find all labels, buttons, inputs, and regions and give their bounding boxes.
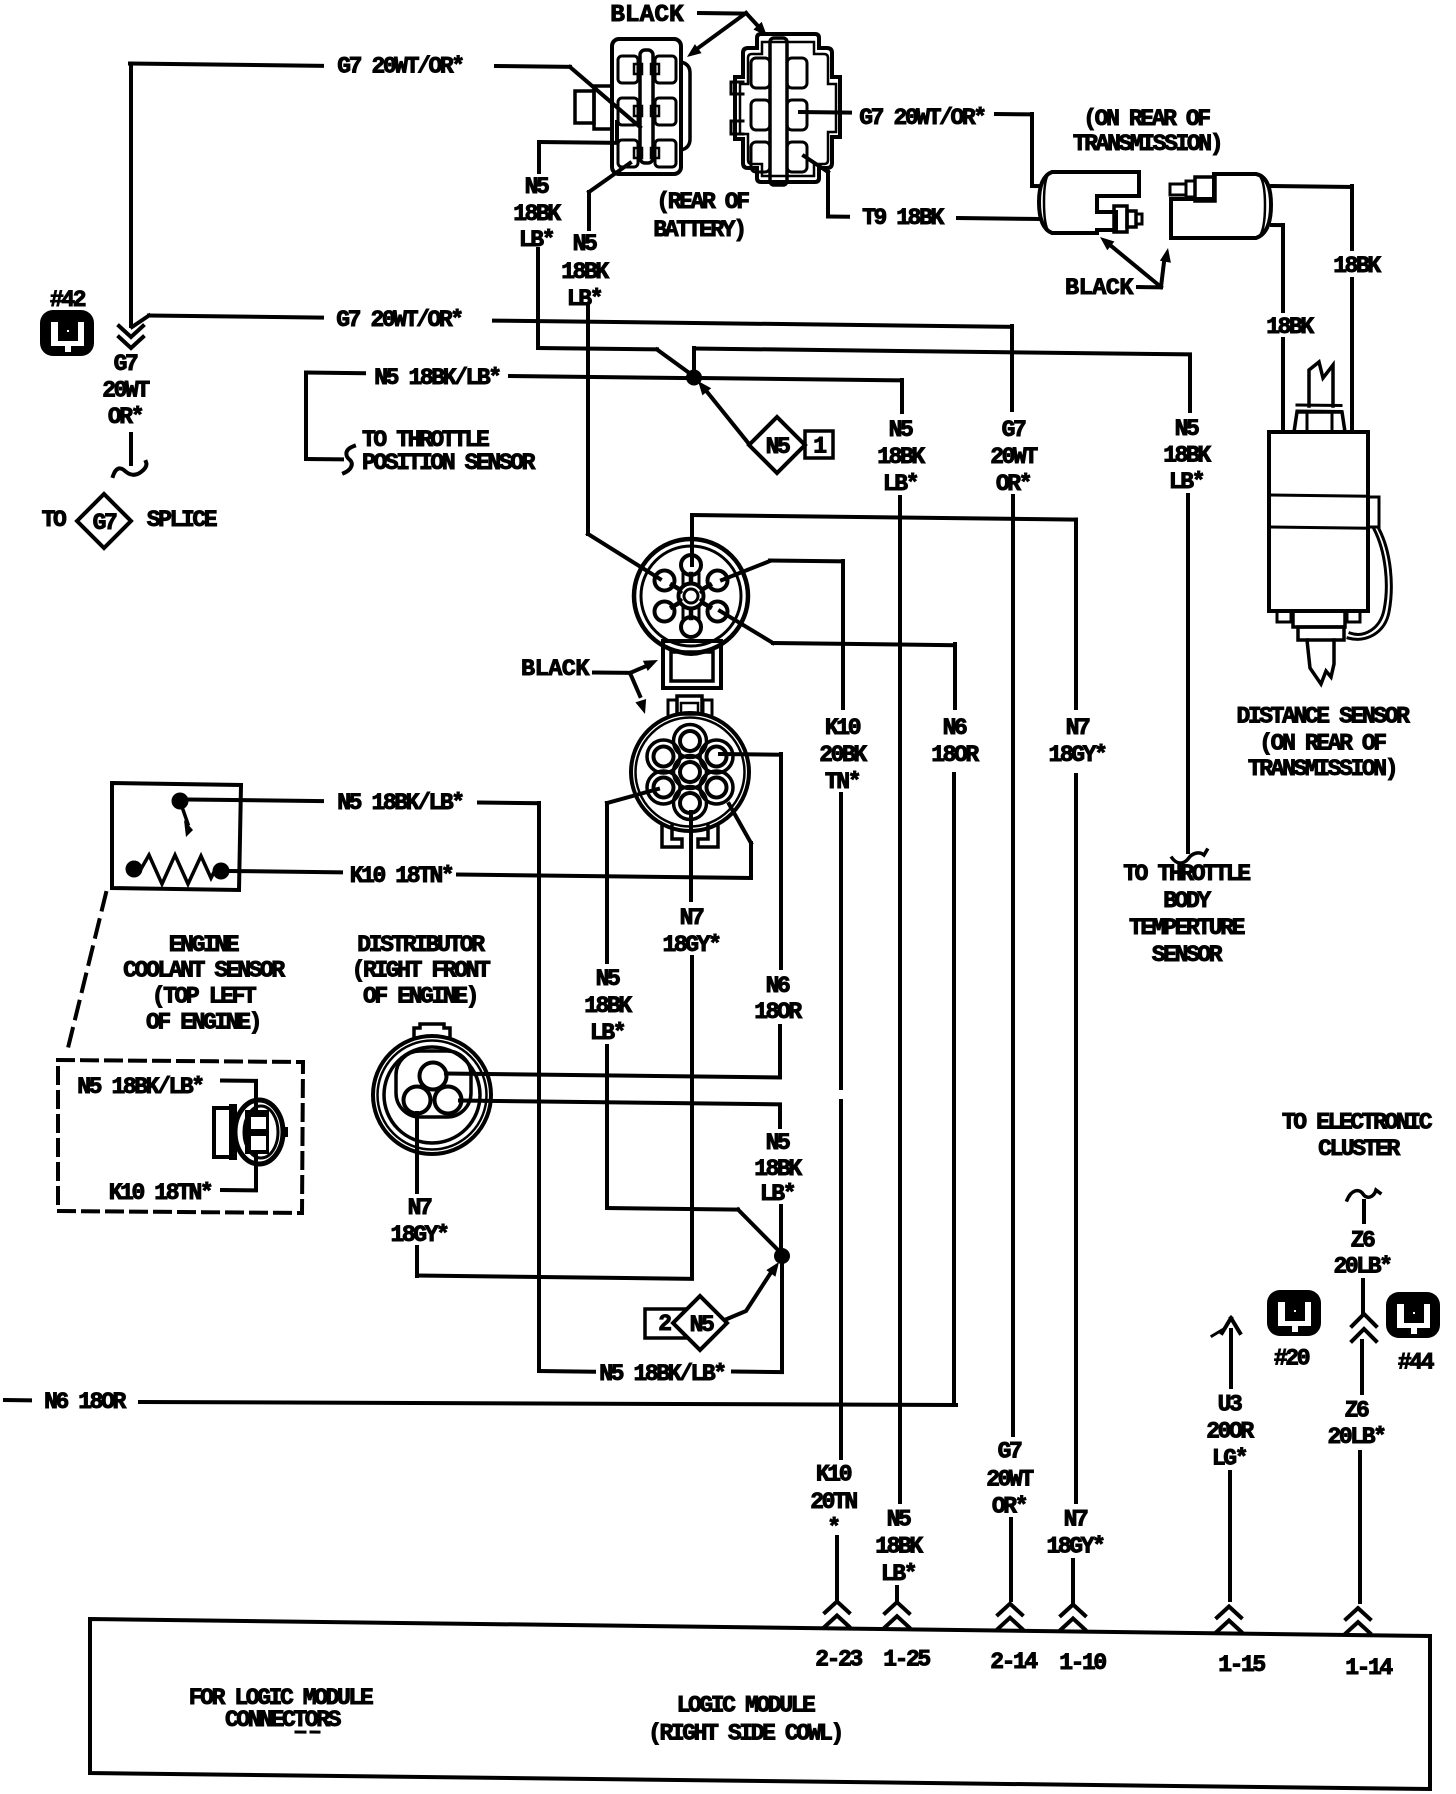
distributor pin right (435, 1087, 462, 1114)
svg-text:(TOP LEFT: (TOP LEFT (152, 984, 257, 1010)
round connector 2 petal (674, 787, 707, 820)
svg-text:(RIGHT SIDE COWL): (RIGHT SIDE COWL) (648, 1721, 842, 1747)
svg-text:OF ENGINE): OF ENGINE) (146, 1010, 260, 1036)
wire T9 diagonal (804, 156, 828, 172)
svg-text:20TN: 20TN (810, 1489, 857, 1515)
junction node 1 (686, 370, 702, 386)
wire N5 to junction 1 (510, 376, 690, 378)
round connector 2 right foot (698, 825, 718, 847)
wire G7 from connector B (800, 110, 850, 115)
connector A right bump (681, 62, 690, 150)
coolant sensor switch needle (182, 807, 188, 824)
wire G7 vertical mid (1011, 496, 1015, 1435)
round connector 1 outer ring (634, 539, 748, 653)
detail sensor nub (282, 1127, 288, 1137)
connector A cavity (655, 56, 676, 83)
wire K10 vertical upper (841, 561, 845, 708)
distance sensor bottom right boss (1347, 611, 1360, 622)
svg-text:18BK: 18BK (877, 444, 925, 470)
wire U3 to module (1228, 1472, 1232, 1600)
svg-text:(RIGHT FRONT: (RIGHT FRONT (352, 958, 491, 984)
splice symbol G7 (77, 494, 131, 548)
wire N5 right long vertical (1186, 495, 1190, 852)
wire N5 bottom row right stub (733, 1370, 782, 1375)
cylinder sensor 1 nipple cap (1127, 211, 1136, 227)
svg-text:N5: N5 (690, 1312, 714, 1338)
svg-text:18GY*: 18GY* (390, 1222, 448, 1248)
svg-text:BODY: BODY (1163, 888, 1211, 914)
wire K10 to module (835, 1537, 839, 1600)
logic module box (90, 1619, 1430, 1789)
wire N6 diagonal from round connector 1 (720, 611, 773, 643)
distance sensor tip (1307, 640, 1334, 684)
wire N5 junction 2 down (780, 1260, 784, 1372)
connector A cavity (655, 98, 676, 125)
arrow to cylinder 2 (1161, 262, 1164, 287)
wire N5 from coolant sensor (188, 800, 322, 802)
wire N7 col x417 lower (415, 1247, 419, 1276)
wire N5 right horizontal (to throttle body) (694, 349, 1190, 355)
coolant sensor resistor terminal right (213, 863, 230, 880)
wire N5 diagonal from round connector 2 pin (607, 789, 658, 803)
round connector 2 petal (647, 740, 680, 773)
brace squiggle (throttle position) (344, 446, 354, 473)
dashed leader to detail box (66, 893, 106, 1056)
svg-text:POSITION SENSOR: POSITION SENSOR (362, 450, 536, 476)
wire G7-2 from chevron (132, 316, 149, 328)
distance sensor torn wire top (1309, 362, 1333, 406)
svg-text:18OR: 18OR (931, 742, 979, 768)
wire G7-2 corner down / G7 long vertical (1010, 326, 1014, 410)
wire bracket vertical (304, 373, 308, 460)
junction node 2 (774, 1248, 790, 1264)
svg-text:1-10: 1-10 (1059, 1650, 1106, 1676)
svg-text:COOLANT SENSOR: COOLANT SENSOR (123, 958, 285, 984)
wire K10 to lower connector (458, 875, 751, 879)
round connector 2 pin (707, 747, 727, 767)
splice arrow to junction 1 (708, 393, 749, 444)
svg-text:N7: N7 (1066, 715, 1090, 741)
wire K10 vertical long 2 (839, 1101, 843, 1458)
connector A cavity (618, 98, 638, 125)
wire N5 col2 lower (586, 306, 590, 534)
svg-text:G7: G7 (998, 1439, 1022, 1465)
arrow to cylinder 1 (1110, 245, 1161, 287)
wire G7-2 horizontal to right (494, 321, 1012, 327)
round connector 1 pin (681, 555, 701, 575)
svg-text:(ON REAR OF: (ON REAR OF (1259, 731, 1386, 757)
svg-text:#42: #42 (50, 287, 86, 313)
distance sensor washer (1297, 404, 1341, 408)
splice symbol N5 2 - box (645, 1309, 688, 1338)
svg-text:BLACK: BLACK (1065, 275, 1134, 302)
wire T9 vertical (826, 172, 830, 216)
svg-text:TRANSMISSION): TRANSMISSION) (1073, 131, 1221, 157)
wire N6 col x780 upper (779, 754, 783, 968)
svg-text:LG*: LG* (1212, 1446, 1247, 1472)
splice symbol N5 1 - box (805, 431, 833, 458)
svg-text:LB*: LB* (883, 471, 918, 497)
round connector 1 spokes (689, 574, 694, 583)
arrow to connector A (694, 13, 746, 51)
wire N5 col x607 upper (605, 803, 609, 962)
module arrow 2-14 (998, 1618, 1022, 1629)
wire N5 col x607 lower (605, 1046, 609, 1208)
wire N7 horizontal to right (692, 515, 1076, 520)
distance sensor band tab (1368, 497, 1379, 527)
coolant sensor resistor zigzag (141, 855, 215, 884)
dashed detail box (58, 1060, 303, 1213)
connector B center bar (770, 38, 787, 185)
svg-text:2-23: 2-23 (815, 1647, 862, 1673)
leader BLACK top (699, 11, 746, 16)
connector B cavity right (787, 100, 807, 130)
wire N5 coolant to corner (479, 801, 539, 806)
wire N6 label dash (5, 1398, 30, 1402)
svg-text:LOGIC MODULE: LOGIC MODULE (677, 1693, 815, 1719)
wire N7 col x692 lower (690, 957, 694, 1278)
wire N5 diagonal into junction 2 (738, 1210, 780, 1253)
wire K10 from resistor (229, 871, 341, 872)
splice symbol N5 1 - diamond (749, 417, 805, 473)
distributor pin left (404, 1087, 431, 1114)
svg-text:18BK: 18BK (561, 259, 609, 285)
round connector 2 inner ring (636, 718, 745, 827)
svg-text:K10: K10 (816, 1462, 852, 1488)
svg-text:N5: N5 (596, 966, 620, 992)
distance sensor body (1269, 432, 1368, 611)
svg-text:G7 20WT/OR*: G7 20WT/OR* (337, 54, 463, 80)
wire Z6 upper stub (1362, 1201, 1366, 1222)
connector B left notch upper (731, 82, 743, 94)
svg-text:LB*: LB* (1169, 469, 1204, 495)
svg-text:N5: N5 (766, 1130, 790, 1156)
distance sensor band (1269, 495, 1368, 496)
round connector 1 center pin (679, 584, 704, 609)
connector B cavity right (787, 58, 807, 88)
svg-text:LB*: LB* (590, 1020, 625, 1046)
wire G7 vertical drop at left (129, 64, 133, 327)
wire G7 label to corner (996, 112, 1032, 116)
wire N7 right to module (1071, 1560, 1075, 1602)
svg-text:LB*: LB* (760, 1181, 795, 1207)
svg-text:20WT: 20WT (986, 1467, 1034, 1493)
detail sensor outer ellipse (235, 1100, 283, 1164)
svg-text:TO: TO (42, 507, 66, 533)
distance sensor hex nut (1294, 412, 1345, 432)
round connector 1 pin (655, 602, 675, 622)
svg-text:N6 18OR: N6 18OR (44, 1389, 126, 1415)
svg-text:OF ENGINE): OF ENGINE) (363, 984, 477, 1010)
wire K10 diagonal from round connector 1 (722, 561, 770, 580)
connector A cavity notch (651, 106, 659, 116)
svg-text:18GY*: 18GY* (1048, 742, 1106, 768)
svg-text:N5: N5 (887, 1507, 911, 1533)
detail sensor inner ellipse (244, 1106, 278, 1158)
round connector 2 pin (707, 778, 727, 798)
wire N5 mid vertical long (898, 497, 902, 1502)
connector A left step (594, 86, 612, 129)
wire N5 col2 diagonal to round connector (588, 534, 660, 579)
svg-text:N6: N6 (943, 715, 967, 741)
connector B cavity left (751, 142, 770, 172)
round connector 2 outer ring (631, 713, 749, 831)
wire T9 to sensor (958, 218, 1040, 219)
wire N5 horizontal to junction 2 (607, 1208, 738, 1210)
wire 18BK-1 from cylinder 1 (1272, 186, 1352, 187)
svg-text:TN*: TN* (825, 769, 860, 795)
connector B outer shell (735, 34, 840, 182)
wire G7 label to connector (496, 64, 570, 69)
detail sensor plug window upper (251, 1117, 266, 1129)
svg-text:K10 18TN*: K10 18TN* (109, 1180, 212, 1206)
connector A cavity notch (651, 64, 659, 74)
arrow to round connector 2 (630, 673, 640, 696)
svg-text:LB*: LB* (881, 1561, 916, 1587)
svg-text:N5 18BK/LB*: N5 18BK/LB* (337, 790, 463, 816)
wire break squiggle (G7 splice) (113, 462, 146, 476)
svg-text:N7: N7 (408, 1195, 432, 1221)
round connector 1 pin (708, 602, 728, 622)
distributor outer ring (373, 1036, 491, 1154)
svg-text:N5: N5 (1175, 416, 1199, 442)
svg-text:20BK: 20BK (819, 742, 867, 768)
svg-text:N5: N5 (573, 231, 597, 257)
wire Z6 above chevrons (1361, 1280, 1365, 1313)
coolant sensor resistor terminal left (126, 861, 143, 878)
round connector 2 pin (654, 747, 674, 767)
wire 18BK-2 from cylinder 2 (1272, 223, 1283, 227)
cylinder sensor 2 cap line (1259, 175, 1265, 237)
wire N5 col x539 long vertical (537, 803, 541, 1371)
connector A center bar (640, 50, 653, 163)
connector A outline (rear of battery) (612, 39, 681, 174)
svg-text:18BK: 18BK (513, 201, 561, 227)
cylinder sensor 2 nipple stage (1195, 177, 1215, 201)
svg-text:#44: #44 (1398, 1350, 1435, 1376)
module arrow 2-23 (825, 1616, 849, 1627)
wire detail N5 (222, 1079, 256, 1083)
wire N5 mid vertical upper (900, 380, 904, 412)
svg-text:N7: N7 (680, 905, 704, 931)
grommet chevrons Z6 (1352, 1329, 1376, 1341)
wire Z6 below chevrons (1360, 1341, 1364, 1393)
svg-text:OR*: OR* (108, 404, 143, 430)
svg-text:CONNECTORS: CONNECTORS (225, 1707, 342, 1733)
svg-text:N7: N7 (1064, 1507, 1088, 1533)
connector A cavity notch (634, 106, 642, 116)
distributor pin top (420, 1063, 447, 1090)
wire N7 right vertical long (1074, 775, 1078, 1502)
svg-text:N5: N5 (889, 417, 913, 443)
round connector 2 left ear (668, 700, 677, 714)
wire N5 right corner down (1188, 355, 1192, 412)
connector A left tab (575, 91, 594, 123)
svg-text:U3: U3 (1218, 1392, 1242, 1418)
wire N5 col1 upper (537, 142, 541, 172)
module arrow 1-14 (1346, 1622, 1370, 1633)
svg-text:LB*: LB* (567, 286, 602, 312)
svg-text:T9 18BK: T9 18BK (862, 205, 944, 231)
svg-text:G7 20WT/OR*: G7 20WT/OR* (859, 105, 985, 131)
connector B cavity left (751, 100, 770, 130)
svg-text:20LB*: 20LB* (1327, 1424, 1385, 1450)
svg-text:18BK: 18BK (875, 1534, 923, 1560)
svg-text:N5 18BK/LB*: N5 18BK/LB* (599, 1361, 725, 1387)
svg-text:1: 1 (813, 434, 826, 460)
wire diagonal into connector A (570, 67, 640, 127)
connector A cavity (618, 56, 638, 83)
wire K10 corner up (749, 843, 753, 877)
svg-text:N5 18BK/LB*: N5 18BK/LB* (77, 1074, 203, 1100)
round connector 2 left foot (662, 825, 682, 847)
svg-text:N5: N5 (766, 434, 790, 460)
svg-text:(ON REAR OF: (ON REAR OF (1083, 106, 1210, 132)
svg-text:ENGINE: ENGINE (169, 932, 239, 958)
wire N7 from round connector 2 bottom pin (689, 812, 693, 900)
wire N5 col2 upper (587, 192, 591, 229)
module arrow 1-25 (885, 1616, 909, 1627)
arrow U3 up (1229, 1330, 1233, 1387)
leader BLACK mid (594, 671, 630, 675)
svg-text:18BK: 18BK (1163, 443, 1211, 469)
wire N5 col2 diagonal from connector A (589, 163, 630, 192)
splice 2 arrow (727, 1274, 770, 1319)
svg-text:G7 20WT/OR*: G7 20WT/OR* (336, 307, 462, 333)
svg-text:N5 18BK/LB*: N5 18BK/LB* (374, 365, 500, 391)
round connector 1 pin (681, 617, 701, 637)
distributor cavity plate (396, 1051, 471, 1117)
cylinder sensor 1 nipple tip (1136, 214, 1142, 224)
cylinder sensor 2 nipple cap (1186, 181, 1195, 197)
wire G7 down to sensor (1030, 114, 1034, 186)
connector A cavity (618, 140, 638, 167)
svg-text:TO THROTTLE: TO THROTTLE (1123, 861, 1250, 887)
distributor ring 2 (378, 1041, 487, 1150)
svg-text:1-25: 1-25 (883, 1647, 930, 1673)
svg-text:K10 18TN*: K10 18TN* (350, 863, 453, 889)
module arrow 1-10 (1061, 1619, 1085, 1630)
wire N6 vertical long (952, 774, 956, 1405)
svg-text:BLACK: BLACK (521, 656, 590, 683)
svg-text:Z6: Z6 (1351, 1228, 1375, 1254)
svg-text:18OR: 18OR (754, 999, 802, 1025)
splice symbol N5 2 - diamond (673, 1296, 727, 1350)
engine coolant sensor box (112, 783, 241, 890)
cylinder sensor 2 body (1171, 174, 1271, 238)
round connector 2 pin (680, 793, 700, 813)
distributor ring 3 (384, 1047, 480, 1143)
connector B cavity left (751, 58, 770, 88)
round connector 2 center pin (680, 762, 700, 782)
wire Z6 to module (1358, 1452, 1362, 1602)
round connector 2 petal (647, 771, 680, 804)
svg-text:SPLICE: SPLICE (147, 507, 217, 533)
round connector 2 right ear (703, 700, 712, 714)
wire bracket to throttle position sensor (306, 371, 364, 376)
svg-text:1-14: 1-14 (1345, 1655, 1393, 1681)
connector B cavity right (787, 142, 807, 172)
detail sensor plug window lower (251, 1136, 266, 1150)
svg-text:1-15: 1-15 (1218, 1652, 1265, 1678)
wire N7 col x417 upper (415, 1113, 419, 1192)
svg-text:G7: G7 (114, 351, 138, 377)
svg-text:20OR: 20OR (1206, 1419, 1254, 1445)
svg-text:20LB*: 20LB* (1333, 1254, 1391, 1280)
wire detail K10 (254, 1153, 258, 1190)
cylinder sensor 1 nipple stage (1114, 206, 1127, 232)
wire N5 col x780 upper (778, 1105, 782, 1128)
round connector 1 inner ring (641, 546, 741, 646)
round connector 2 petal (700, 740, 733, 773)
svg-text:18BK: 18BK (1266, 314, 1314, 340)
round connector 2 petal (674, 725, 707, 758)
wire 18BK-2 down to distance sensor (1281, 339, 1285, 432)
svg-text:18BK: 18BK (754, 1156, 802, 1182)
wire N5 col1 horizontal corner (538, 348, 657, 349)
arrow to keyway (630, 667, 644, 673)
wire N5 leader from distributor (460, 1101, 780, 1105)
svg-text:TRANSMISSION): TRANSMISSION) (1248, 756, 1396, 782)
wire K10 diagonal to pin (729, 804, 751, 843)
svg-text:20WT: 20WT (102, 378, 150, 404)
wire break squiggle (cluster) (1347, 1190, 1380, 1200)
distance sensor hook wire (1348, 529, 1391, 639)
wire N5 col1 from connector A (539, 140, 617, 145)
arrow to connector B (746, 13, 758, 26)
wire N7 up from round connector 1 top pin (690, 515, 694, 565)
distance sensor bottom stack (1293, 611, 1345, 627)
wire N5 18BK/LB* to N5 column (700, 378, 902, 380)
round connector 1 pin (655, 571, 675, 591)
wire N6 vertical upper (953, 644, 957, 708)
round connector 1 channels (682, 572, 685, 585)
wire N6 from round connector 2 right pin (720, 752, 781, 757)
svg-text:18GY*: 18GY* (662, 932, 720, 958)
wire N5 diagonal into junction 1 (657, 350, 692, 376)
svg-text:2-14: 2-14 (990, 1649, 1038, 1675)
svg-text:BLACK: BLACK (610, 2, 684, 29)
svg-text:18GY*: 18GY* (1046, 1534, 1104, 1560)
round connector 1 keyway inner (671, 652, 713, 681)
connector A cavity (655, 140, 676, 167)
svg-text:SENSOR: SENSOR (1152, 942, 1223, 968)
cylinder sensor 2 nipple tip (1170, 184, 1186, 195)
wire junction stub up (692, 348, 696, 377)
grommet #44 (1386, 1292, 1440, 1338)
grommet #20 (1267, 1290, 1321, 1336)
detail sensor mid block (229, 1104, 237, 1160)
svg-text:#20: #20 (1274, 1346, 1310, 1372)
wire K10 vertical long (839, 794, 843, 1088)
wire N5 bottom row left stub (539, 1369, 594, 1374)
connector A cavity notch (651, 148, 659, 158)
wire N6 leader to distributor top pin (446, 1074, 780, 1078)
coolant sensor switch terminal (172, 793, 189, 810)
connector A cavity notch (634, 64, 642, 74)
round connector 2 pin (680, 731, 700, 751)
wire N5 mid to module (895, 1587, 899, 1602)
round connector 2 petal (700, 771, 733, 804)
svg-text:BATTERY): BATTERY) (653, 217, 744, 243)
detail sensor plug block (245, 1110, 269, 1154)
wire G7 stub to splice (129, 434, 133, 464)
detail sensor left block (214, 1108, 231, 1157)
svg-text:Z6: Z6 (1345, 1398, 1369, 1424)
wire N6 long horizontal (140, 1402, 956, 1405)
svg-text:CLUSTER: CLUSTER (1318, 1136, 1400, 1162)
round connector 1 keyway tab (663, 641, 721, 688)
